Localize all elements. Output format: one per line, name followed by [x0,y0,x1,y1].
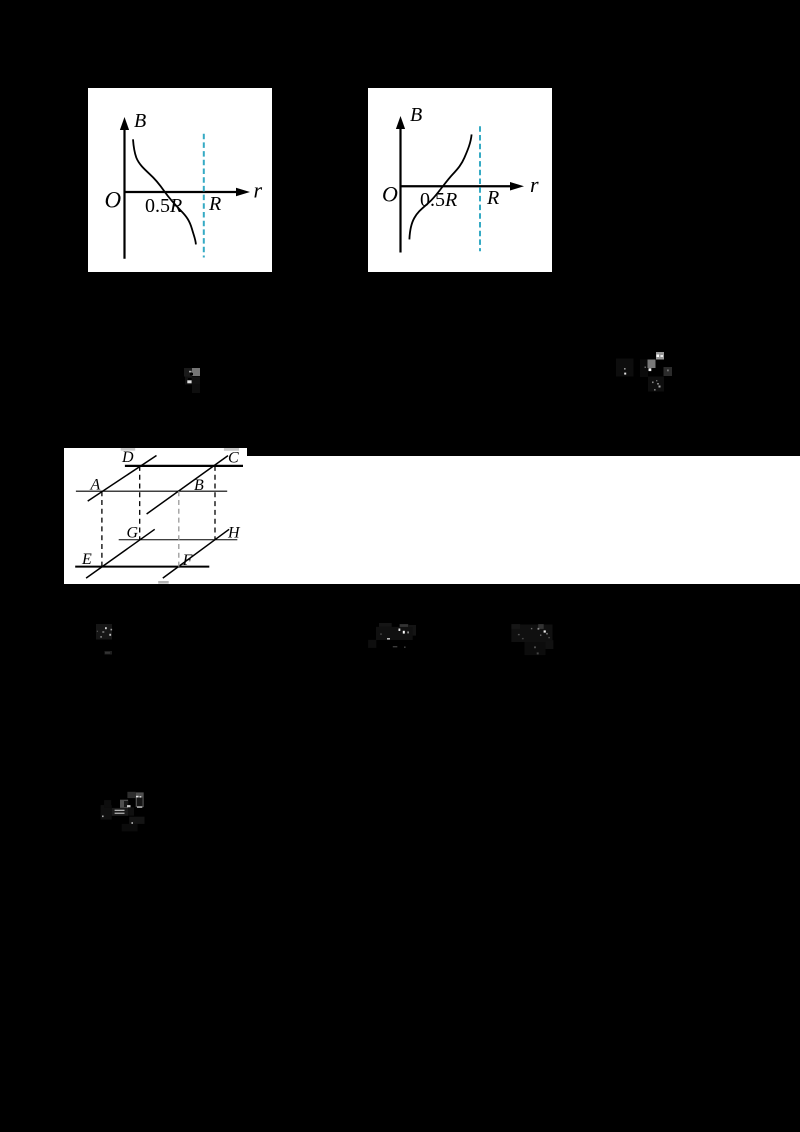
graph box 1 [88,88,272,272]
svg-text:O: O [105,188,122,213]
svg-text:B: B [194,477,204,494]
faint math fragment 1 [180,364,206,396]
dashed BF [178,491,180,566]
dashed AE [101,491,103,566]
gray artifact top above C [224,448,239,451]
svg-text:R: R [208,193,221,215]
dashed DG [139,466,141,540]
line DC [125,465,243,467]
x-axis [401,185,515,187]
line BC [147,456,228,514]
svg-text:F: F [182,552,193,569]
line AD [88,456,157,502]
svg-text:H: H [227,524,241,541]
gray artifact bottom below F [158,581,169,584]
svg-text:C: C [228,450,239,467]
line FH [163,529,229,578]
y-axis [399,128,401,253]
x-axis [125,191,241,193]
line AB [76,490,227,492]
parallelepiped figure box [64,448,247,584]
line EG [86,529,155,578]
svg-text:D: D [121,449,134,466]
svg-text:r: r [530,172,539,197]
gray artifact top above D [121,448,136,451]
svg-text:R: R [486,187,499,209]
curve [409,134,471,239]
white band right of figure [247,456,800,584]
svg-text:G: G [127,524,139,541]
faint math fragment 3 [92,620,120,660]
y-axis [123,128,125,259]
faint math fragment 5 [507,620,557,660]
svg-text:E: E [81,551,92,568]
faint math fragment 4 [364,619,420,652]
svg-text:O: O [382,182,398,207]
faint math fragment 2 [612,348,676,396]
graph box 2 [368,88,552,272]
svg-text:B: B [410,104,422,126]
svg-text:r: r [254,178,263,203]
dashed CH [214,466,216,540]
line GH [119,539,238,541]
cyan dashed line [203,134,205,258]
cyan dashed line [479,126,481,251]
faint math fragment 6 [92,786,150,836]
curve [133,139,196,244]
svg-text:B: B [134,110,146,132]
svg-text:A: A [90,476,101,493]
line EF [75,566,209,568]
